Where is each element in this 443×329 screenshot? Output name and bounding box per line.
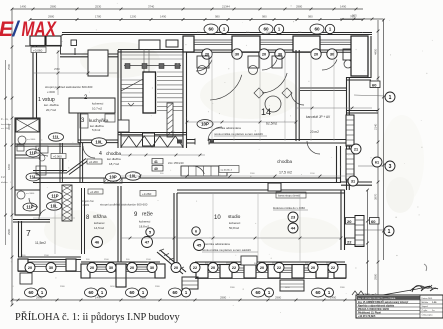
door recess joint — [60, 45, 62, 54]
room 14 chair 1 — [198, 66, 207, 75]
grid leader line 1 — [354, 95, 385, 96]
room 14 radiator 1 — [197, 56, 209, 68]
door oval 11P wc — [48, 192, 63, 200]
left bay door swing arc lower — [29, 198, 38, 207]
svg-text:21344: 21344 — [222, 5, 230, 9]
stair lobby door box — [143, 133, 155, 146]
window pier B — [232, 36, 260, 52]
stairwell right wall — [182, 40, 184, 148]
level label +0.200 corridor4 — [87, 159, 102, 164]
title block header row dark — [357, 296, 420, 300]
svg-text:14,5m2: 14,5m2 — [94, 226, 104, 230]
svg-text:905: 905 — [352, 14, 357, 18]
window 1 top band — [194, 39, 232, 41]
room14 dim chain horizontal — [187, 121, 296, 123]
window tag 60-1 pair C — [310, 24, 324, 34]
room 14 radiator 3 — [272, 56, 282, 68]
svg-text:45: 45 — [197, 242, 202, 247]
bottom sill line left — [18, 271, 81, 273]
corridor door arc lower — [193, 166, 204, 174]
tag circle 46 room8 — [92, 237, 103, 248]
svg-text:1780: 1780 — [95, 15, 102, 19]
stair central well — [143, 72, 156, 113]
svg-text:kobereci: kobereci — [139, 220, 151, 224]
stair up-line diagonal — [121, 79, 143, 91]
svg-text:18,7m2: 18,7m2 — [109, 162, 119, 166]
svg-text:2980: 2980 — [296, 5, 303, 9]
stairwell lower closet — [118, 120, 129, 132]
svg-text:2580: 2580 — [7, 63, 11, 70]
svg-text:20: 20 — [130, 266, 134, 270]
tag circle 23 room10 — [288, 212, 298, 222]
right dimension line near — [377, 20, 379, 303]
wc partition vertical short — [62, 159, 64, 172]
tag circle 47 room9 — [142, 237, 153, 248]
door oval 10P corridor — [106, 173, 121, 181]
door jamb block 1 — [177, 140, 182, 144]
kancelar door arc corridor — [307, 141, 320, 154]
bottom window left — [28, 261, 66, 263]
svg-text:5: 5 — [149, 230, 151, 234]
svg-text:Zdv 155/240: Zdv 155/240 — [168, 161, 184, 165]
stair treads left flight — [121, 79, 145, 81]
svg-text:ker. dlažba: ker. dlažba — [44, 103, 59, 107]
title block right column rows — [420, 299, 443, 301]
bottom window right 6 — [328, 267, 334, 269]
room 14 chair diamond 2 — [282, 88, 292, 98]
bottom window mid 2 — [126, 266, 155, 268]
svg-text:2530: 2530 — [95, 5, 102, 9]
grid leader line 3 — [358, 165, 384, 167]
top right corner wall — [351, 36, 368, 76]
svg-text:2980: 2980 — [50, 5, 57, 9]
svg-text:22: 22 — [193, 266, 197, 270]
sill tag 20-30 pair B — [259, 49, 269, 59]
level label +0.060 wc — [51, 154, 66, 159]
svg-text:2140: 2140 — [374, 123, 378, 130]
door oval 10L lower — [47, 202, 62, 210]
door swing arc room4 — [83, 146, 95, 158]
room 14 chair diamond 1 — [254, 88, 264, 98]
svg-text:stropní podhled sádrokartón 60: stropní podhled sádrokartón 600-600 — [100, 203, 148, 207]
window pier C — [293, 36, 320, 52]
window 2 top band — [260, 39, 293, 41]
svg-text:stropní podhled sádrokartón 60: stropní podhled sádrokartón 600-600 — [45, 85, 93, 89]
top-left window pier 1 — [30, 36, 45, 46]
stray mark right of plan — [424, 264, 427, 271]
wc cluster fixtures — [36, 146, 48, 153]
tag circle 44 room10 — [288, 223, 298, 233]
svg-text:20: 20 — [90, 266, 94, 270]
svg-text:1200: 1200 — [130, 15, 137, 19]
svg-text:stropní čon: stropní čon — [81, 199, 94, 203]
svg-text:60: 60 — [372, 83, 377, 88]
svg-text:chodba: chodba — [106, 151, 122, 156]
right lower tag 22 boxed — [346, 238, 356, 245]
left bay X-braced box — [16, 119, 39, 132]
room 4 chodba inner wall — [79, 143, 81, 183]
svg-text:vaj dlažba li: vaj dlažba li — [221, 170, 233, 172]
top dimension line 1 — [12, 8, 363, 10]
room 14 bottom wall — [187, 139, 352, 141]
room 14 door swing to corridor — [208, 127, 222, 141]
outer wall left bay — [15, 118, 40, 215]
svg-text:3740: 3740 — [148, 5, 155, 9]
svg-text:+3.260: +3.260 — [142, 192, 152, 196]
svg-text:17,5 m2: 17,5 m2 — [279, 171, 292, 175]
svg-text:20: 20 — [260, 266, 264, 270]
closet box room1 top — [88, 50, 108, 76]
svg-text:střižna: střižna — [93, 214, 107, 219]
door opening room14 to corridor — [195, 138, 209, 145]
svg-text:10L: 10L — [50, 204, 58, 209]
tag circle 61 right — [372, 157, 382, 167]
level label +3.260 room9 — [140, 191, 156, 197]
bottom window tags 60-1 row — [25, 288, 38, 297]
studio interior verticals — [212, 193, 214, 262]
room 8-9 divider wall — [117, 186, 119, 262]
svg-text:60: 60 — [371, 219, 376, 224]
sill tag 20-30 pair A — [202, 49, 212, 59]
svg-text:20: 20 — [347, 219, 352, 224]
svg-text:omítka odstraněna: omítka odstraněna — [216, 126, 241, 130]
room 10 right wall — [340, 190, 342, 250]
svg-text:ker.dlažba: ker.dlažba — [107, 157, 121, 161]
room 10 ceiling color note box — [276, 192, 306, 198]
bottom window right 4 — [280, 267, 292, 269]
room 10 top tab — [268, 183, 281, 191]
svg-text:22: 22 — [232, 266, 236, 270]
svg-text:14: 14 — [261, 107, 271, 117]
outer wall left upper — [32, 45, 34, 118]
bottom window right 2 — [232, 267, 244, 269]
room1 interior dim line horizontal — [33, 72, 118, 74]
left bay inner partitions — [15, 131, 40, 133]
svg-text:2580: 2580 — [54, 67, 60, 71]
svg-text:980: 980 — [215, 15, 220, 19]
room 10 top wall — [177, 189, 345, 191]
corridor step hatch box — [62, 185, 72, 221]
stairwell bottom wall — [118, 132, 187, 134]
svg-text:980: 980 — [308, 15, 313, 19]
tag circle 45 room10 — [194, 240, 205, 251]
svg-text:koberec: koberec — [94, 221, 105, 225]
svg-text:dlažba: dlažba — [1, 182, 8, 184]
svg-text:Datum 2001: Datum 2001 — [422, 297, 434, 300]
svg-text:30: 30 — [235, 51, 239, 56]
svg-text:2980: 2980 — [275, 296, 282, 300]
window tag 60-1 pair A — [204, 24, 218, 34]
left bay door oval 11P upper — [26, 149, 40, 157]
bottom band right piers — [196, 265, 208, 279]
room 7-8 divider wall — [81, 188, 83, 254]
svg-text:nová omítka na pletivo a cem.s: nová omítka na pletivo a cem.sádofit — [202, 248, 251, 252]
stairwell top wall — [118, 49, 187, 51]
signature flourish — [412, 286, 438, 292]
svg-text:31: 31 — [351, 179, 355, 183]
svg-text:Č.výkr.: Č.výkr. — [422, 309, 429, 312]
bottom tab step 2 — [280, 280, 304, 291]
door jamb block 2 — [210, 140, 214, 144]
svg-text:60: 60 — [314, 27, 320, 32]
door swing arc window A — [196, 60, 212, 71]
right lower tag 60 boxed — [370, 218, 380, 225]
corridor counter label box — [219, 166, 239, 173]
svg-text:30: 30 — [150, 266, 154, 270]
svg-text:60: 60 — [208, 27, 214, 32]
svg-text:10: 10 — [214, 215, 221, 221]
svg-text:30: 30 — [109, 266, 113, 270]
svg-text:2980: 2980 — [220, 296, 227, 300]
porch box below left corner — [20, 273, 32, 284]
title block row lines — [357, 299, 420, 301]
faint smudge right — [386, 177, 414, 213]
svg-text:21: 21 — [354, 147, 358, 151]
right dimension line far — [383, 19, 385, 260]
svg-text:+0.200: +0.200 — [90, 190, 99, 194]
room 3 bottom wall — [78, 139, 118, 141]
diagonal canted wall — [157, 250, 186, 274]
chimney box 2 above stair top wall — [166, 40, 178, 47]
corridor east wall — [336, 146, 338, 182]
right annex bottom wall — [341, 181, 372, 183]
tag 60 boxed right upper — [370, 81, 380, 88]
room7 door swing — [39, 210, 46, 219]
right wall ladder window leader — [364, 229, 386, 231]
svg-text:1:50: 1:50 — [432, 302, 437, 304]
svg-text:60: 60 — [89, 290, 94, 295]
svg-text:46: 46 — [95, 239, 100, 244]
title block column divider — [419, 295, 421, 318]
svg-text:20: 20 — [311, 266, 315, 270]
top-left window pier 2 — [46, 36, 61, 46]
level label +0.060 top — [31, 47, 46, 53]
svg-text:5,6m2: 5,6m2 — [92, 128, 101, 132]
window tag 60-1 pair B — [259, 24, 273, 34]
svg-text:Měřítko: Měřítko — [422, 301, 430, 304]
door oval 10L corridor — [126, 172, 141, 180]
porch step column — [71, 40, 77, 46]
mid right dimension line — [367, 190, 369, 298]
svg-text:11L: 11L — [53, 135, 60, 140]
room7 dim lines — [33, 217, 75, 219]
room 2 walls — [69, 98, 115, 113]
room 14 right wall — [295, 50, 297, 141]
svg-text:20 m2: 20 m2 — [310, 130, 319, 134]
bottom window mid 1 — [90, 266, 116, 268]
bottom sill tags row — [25, 263, 35, 273]
svg-text:6: 6 — [195, 229, 197, 233]
svg-text:47: 47 — [145, 239, 150, 244]
corner basin kancelar — [344, 60, 352, 68]
svg-text:20: 20 — [262, 51, 266, 56]
kuchynka fixtures — [80, 114, 88, 128]
level label +0.200 lower — [88, 189, 103, 194]
stair upper run treads — [121, 54, 183, 56]
window 3 top band — [320, 39, 351, 41]
svg-text:20,7m2: 20,7m2 — [46, 108, 56, 112]
top right dimension line — [340, 18, 384, 20]
corridor dim chain upper — [121, 154, 205, 156]
svg-text:23: 23 — [291, 214, 296, 219]
room14 dim chain 2 — [296, 107, 372, 109]
chimney flue lines — [143, 50, 145, 73]
right annex partition — [346, 110, 378, 112]
svg-text:+0.060: +0.060 — [33, 49, 43, 53]
chimney box above stair top wall — [139, 40, 160, 50]
svg-text:v-3203: v-3203 — [81, 203, 89, 207]
bottom wall right block — [195, 261, 345, 263]
outer wall left lower — [18, 221, 20, 257]
svg-text:61: 61 — [375, 160, 379, 164]
REMAX logo — [0, 18, 57, 41]
svg-text:1800: 1800 — [7, 163, 11, 170]
door tag boxed 40 — [152, 166, 163, 172]
stair lobby zigzag partition — [121, 136, 183, 147]
svg-text:60: 60 — [173, 290, 178, 295]
tag circle 6 room10 — [192, 227, 200, 235]
svg-text:kobereci: kobereci — [229, 221, 241, 225]
wc row top wall — [15, 143, 81, 145]
svg-text:v.o.1800: v.o.1800 — [26, 193, 35, 195]
svg-text:3870: 3870 — [374, 193, 378, 200]
grid mark circle 3 right middle — [385, 161, 395, 171]
stair landing rail — [124, 65, 181, 67]
svg-text:60: 60 — [263, 27, 269, 32]
porch side wall — [74, 48, 76, 55]
top band inner wall — [187, 49, 351, 51]
pilaster bottom mid — [241, 256, 257, 265]
svg-text:10,7m2: 10,7m2 — [92, 107, 102, 111]
room 14 radiator 2 — [248, 56, 259, 68]
svg-text:1490: 1490 — [340, 5, 347, 9]
left bay fixture circle upper — [18, 136, 26, 144]
svg-text:MAX: MAX — [22, 18, 58, 41]
svg-text:PŘÍLOHA č. 1: ii půdorys I.NP: PŘÍLOHA č. 1: ii půdorys I.NP budovy — [15, 311, 181, 323]
svg-text:10P: 10P — [201, 122, 209, 127]
corner column kancelar — [343, 49, 355, 60]
room 14 window swing arc 1 — [210, 75, 242, 100]
sill tag 20-30 pair C — [311, 49, 321, 59]
left bay door oval 11L middle — [26, 173, 40, 181]
svg-text:v-3000: v-3000 — [47, 90, 55, 94]
svg-text:kobereci: kobereci — [92, 102, 104, 106]
bottom wall left block — [18, 256, 81, 258]
left dimension line — [11, 9, 13, 305]
left bay door oval 11P lower — [23, 203, 37, 211]
svg-text:omítka odstraněna: omítka odstraněna — [205, 242, 230, 246]
svg-text:40: 40 — [154, 167, 158, 171]
outer wall top-left stepped — [60, 53, 118, 55]
svg-text:1490: 1490 — [20, 5, 27, 9]
wc partition vertical — [59, 143, 61, 183]
svg-text:41: 41 — [154, 160, 158, 164]
bottom window right 5 — [304, 267, 316, 269]
door swing arc window C — [322, 60, 337, 71]
svg-text:Číslo popisu: Číslo popisu — [422, 314, 433, 317]
svg-text:2980: 2980 — [7, 228, 11, 235]
bottom tab step 1 — [182, 277, 198, 289]
svg-text:20: 20 — [28, 266, 32, 270]
left bay fixture circle lower — [17, 191, 25, 199]
door swing arc window B — [262, 60, 277, 71]
room 3 walls — [77, 113, 79, 143]
svg-text:barva stropu černá: barva stropu černá — [278, 194, 300, 198]
svg-text:22: 22 — [347, 240, 352, 245]
tag circle 5 room9 — [146, 228, 154, 236]
room14 window droplines — [211, 50, 213, 141]
title block frame — [356, 295, 443, 318]
room 14 table circle — [265, 96, 281, 112]
door swing arc wc1 — [38, 148, 48, 156]
svg-text:60: 60 — [256, 290, 261, 295]
right wall ladder window — [355, 216, 364, 247]
bottom wall mid block — [81, 261, 160, 263]
svg-text:60: 60 — [316, 290, 321, 295]
tag circle 21 right — [351, 144, 361, 154]
top band outer wall — [62, 32, 372, 34]
grid mark circle 1 right upper — [385, 92, 395, 102]
svg-text:20: 20 — [314, 51, 318, 56]
right wall jog upper — [346, 77, 371, 79]
svg-text:11P: 11P — [51, 194, 58, 199]
svg-text:ker.dlažba: ker.dlažba — [1, 123, 12, 126]
kancelar partition top — [300, 87, 347, 89]
right annex ladder window lower — [346, 149, 354, 180]
svg-text:44: 44 — [291, 225, 296, 230]
door tag boxed 41 — [152, 159, 163, 165]
right outer wall upper — [367, 36, 369, 78]
svg-text:+0.060: +0.060 — [53, 155, 62, 159]
svg-text:nová omítka na pletivo a cem.s: nová omítka na pletivo a cem.sádofit — [214, 132, 263, 136]
bottom sill line right — [195, 278, 346, 280]
bottom band mid piers — [81, 264, 90, 278]
grid mark circle 1 right lower — [384, 226, 394, 236]
right lower tag 20 boxed — [346, 218, 356, 225]
svg-text:2980: 2980 — [374, 273, 378, 280]
svg-text:30: 30 — [330, 51, 334, 56]
wc partition horizontal — [33, 170, 67, 172]
stair direction arrow — [128, 103, 134, 106]
door oval 10L kuchynka — [92, 138, 107, 146]
svg-text:kancelář JP + AV: kancelář JP + AV — [306, 115, 331, 119]
room 14 chair 2 — [249, 66, 258, 75]
svg-text:Stupeň: Stupeň — [422, 305, 428, 308]
svg-text:20: 20 — [211, 266, 215, 270]
svg-text:+0.200: +0.200 — [89, 160, 98, 164]
svg-text:20: 20 — [174, 266, 178, 270]
corridor counter row — [181, 166, 227, 176]
scan mottling — [80, 42, 160, 78]
svg-text:18,8m2: 18,8m2 — [139, 225, 149, 229]
kancelar door swing — [291, 92, 304, 105]
svg-text:50,8m2: 50,8m2 — [229, 226, 239, 230]
svg-text:studio: studio — [228, 214, 241, 219]
bottom rooms dim chain — [121, 237, 341, 239]
svg-text:10P: 10P — [109, 175, 117, 180]
bottom window right 3 — [256, 267, 268, 269]
bottom band left piers — [18, 259, 28, 271]
svg-text:22: 22 — [277, 266, 281, 270]
top dimension line 2 — [30, 19, 363, 21]
room 14 window swing arc 2 — [262, 73, 287, 93]
stairwell left wall — [117, 50, 119, 148]
right outer wall mid — [346, 77, 348, 190]
room1 interior dim vertical — [57, 50, 59, 95]
elevator hatched strip — [167, 103, 173, 137]
svg-text:štuková omítka do v 4060: štuková omítka do v 4060 — [273, 206, 305, 210]
svg-text:1: 1 — [388, 229, 391, 235]
